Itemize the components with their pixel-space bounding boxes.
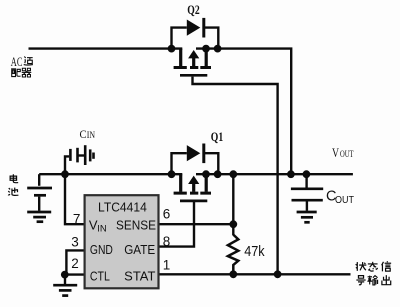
svg-text:IN: IN: [87, 130, 96, 140]
Q2 gate plate: [180, 74, 207, 77]
Q1 body diode cathode wire: [205, 153, 219, 174]
svg-text:Q2: Q2: [187, 3, 199, 17]
svg-text:47k: 47k: [244, 243, 265, 260]
label status output 状态信号输出: [356, 262, 367, 271]
svg-text:LTC4414: LTC4414: [98, 200, 147, 215]
COUT plate 1: [291, 188, 323, 191]
CIN plate 2: [76, 148, 79, 163]
Q1 drain lead: [179, 174, 182, 192]
resistor 47k: [228, 235, 238, 275]
Q1 body diode triangle: [187, 145, 201, 161]
node dot Q1 source: [202, 170, 210, 178]
node dot STAT resistor: [229, 270, 237, 278]
wire battery rail to Q1: [39, 173, 182, 175]
wire CTL pin 2: [65, 273, 85, 275]
wire VIN pin 7: [65, 174, 85, 224]
svg-text:2: 2: [71, 256, 79, 271]
label battery 电池: [10, 174, 18, 182]
Q2 channel bars: [174, 66, 211, 69]
transistor Q1: [172, 144, 219, 201]
Q2 body diode cathode wire: [205, 28, 219, 49]
svg-text:OUT: OUT: [335, 194, 354, 206]
node dot Q1 cathode: [214, 170, 222, 178]
battery stem: [38, 197, 40, 211]
node dot output rail AC join: [287, 170, 295, 178]
CIN connector: [78, 154, 86, 156]
CIN plate 1: [69, 149, 72, 161]
CIN lead: [65, 156, 69, 174]
svg-text:IN: IN: [97, 223, 107, 234]
svg-text:OUT: OUT: [340, 150, 354, 160]
wire Q2 right rail down to output rail: [196, 49, 291, 175]
wire AC adapter input rail: [29, 47, 183, 49]
Q2 source lead: [205, 49, 208, 67]
ground CIN bars: [84, 145, 87, 165]
svg-text:SENSE: SENSE: [116, 219, 156, 233]
Q1 gate plate: [180, 200, 207, 203]
COUT stub: [305, 174, 307, 187]
Q1 body diode anode wire: [172, 153, 187, 174]
battery long plate: [27, 187, 52, 190]
node dot output rail COUT: [303, 170, 311, 178]
ground IC: [53, 275, 77, 296]
svg-text:CTL: CTL: [90, 270, 110, 284]
Q2 drain lead: [179, 49, 182, 67]
svg-text:Q1: Q1: [211, 130, 223, 144]
COUT stem: [306, 201, 308, 210]
COUT plate 2: [292, 199, 323, 202]
Q1 channel bars: [174, 192, 211, 195]
svg-text:8: 8: [163, 234, 171, 249]
IC U1 LTC4414: [85, 195, 159, 288]
wire SENSE vertical from output rail: [232, 174, 234, 235]
svg-text:GATE: GATE: [124, 243, 155, 257]
Q2 body diode anode wire: [172, 28, 187, 49]
node dot Q2 drain: [168, 45, 176, 53]
node dot Q2 cathode: [214, 45, 222, 53]
Q1 body arrow: [192, 182, 195, 192]
wire GATE pin 8 to Q1 gate: [159, 202, 195, 247]
ground COUT: [297, 212, 317, 222]
wire GND pin 3: [66, 250, 84, 274]
node dot Q1 drain: [168, 170, 176, 178]
svg-text:AC: AC: [11, 55, 23, 69]
wire output rail: [196, 173, 353, 175]
node dot output rail SENSE: [229, 170, 237, 178]
capacitor COUT: [291, 174, 323, 211]
svg-text:STAT: STAT: [124, 270, 156, 284]
Q1 body diode cathode bar: [202, 144, 205, 164]
capacitor CIN: [65, 145, 94, 174]
wire SENSE pin 6: [159, 223, 234, 225]
svg-text:C: C: [80, 127, 87, 141]
svg-text:1: 1: [163, 258, 171, 273]
battery short plate: [34, 194, 46, 197]
Q2 body diode cathode bar: [202, 18, 205, 38]
svg-text:6: 6: [163, 206, 171, 221]
node dot SENSE pin6: [229, 220, 237, 228]
Q1 source lead: [205, 174, 208, 192]
ground battery: [27, 212, 51, 222]
battery lead: [38, 174, 40, 186]
svg-text:7: 7: [73, 211, 81, 226]
battery: [27, 174, 52, 211]
svg-text:3: 3: [71, 234, 79, 249]
node dot Q2 source: [202, 45, 210, 53]
transistor Q2: [172, 18, 219, 75]
svg-text:V: V: [332, 145, 339, 160]
Q2 body diode triangle: [187, 20, 201, 36]
wire STAT line: [159, 273, 351, 275]
svg-text:GND: GND: [90, 243, 113, 257]
wire Q2 gate run to STAT line: [193, 77, 278, 275]
node dot STAT gate: [274, 270, 282, 278]
node dot battery rail CIN junction: [61, 170, 69, 178]
Q2 body arrow: [192, 57, 195, 67]
node dot CTL ground: [61, 271, 69, 279]
